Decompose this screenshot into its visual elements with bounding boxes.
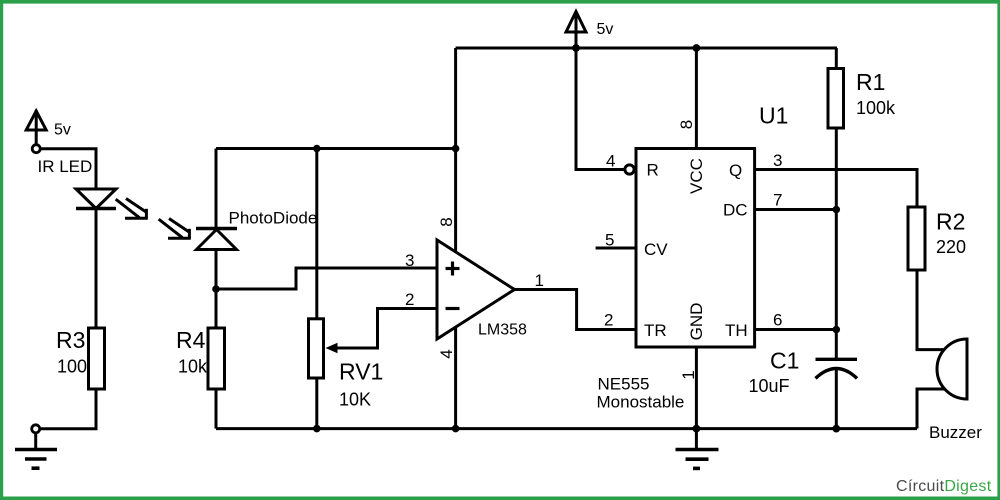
junction node RV1 bottom [313, 425, 321, 433]
power rail top (y=48) [456, 47, 837, 50]
svg-text:CírcuitDigest: CírcuitDigest [896, 478, 992, 495]
resistor R2 [908, 207, 925, 270]
svg-text:6: 6 [773, 311, 782, 330]
svg-text:CV: CV [644, 240, 668, 259]
555 GND pin 1 wire [695, 347, 698, 449]
555 VCC pin 8 wire [695, 48, 698, 149]
svg-text:TH: TH [725, 321, 748, 340]
svg-text:Q: Q [729, 161, 742, 180]
LED emission arrow 2 [159, 219, 191, 239]
wire R4 to bottom rail [215, 389, 218, 429]
resistor R1 [828, 69, 844, 129]
svg-text:7: 7 [773, 191, 782, 210]
op-amp + marker [446, 262, 460, 276]
svg-text:Buzzer: Buzzer [929, 423, 982, 442]
svg-text:4: 4 [606, 152, 615, 171]
wire 5v to reset pin [576, 48, 625, 170]
svg-text:RV1: RV1 [339, 359, 383, 385]
svg-text:100k: 100k [856, 98, 896, 118]
svg-text:LM358: LM358 [478, 322, 527, 339]
node ring at left ground [32, 425, 40, 433]
svg-text:2: 2 [405, 290, 414, 309]
svg-text:5v: 5v [54, 122, 71, 139]
wire RV1 to bottom rail [315, 378, 318, 429]
svg-text:PhotoDiode: PhotoDiode [229, 209, 318, 228]
buzzer LS1 [937, 339, 967, 399]
wire R1 to C1 (crosses Q wire, no dot) [835, 128, 838, 359]
svg-text:TR: TR [644, 321, 667, 340]
ground (555) [676, 450, 719, 469]
svg-text:10k: 10k [178, 357, 208, 377]
potentiometer RV1 body [309, 319, 324, 378]
wire top rail to R1 [835, 48, 838, 69]
photodiode D2 [196, 229, 237, 250]
svg-text:3: 3 [405, 251, 414, 270]
wire node to R4 [215, 289, 218, 328]
svg-text:10uF: 10uF [749, 376, 790, 396]
wire supply to LED [41, 149, 97, 189]
IR LED diode [76, 189, 116, 209]
555 CV stub pin 5 [596, 247, 636, 250]
wire rail to RV1 [315, 149, 318, 319]
junction node rail/pin8 [452, 145, 460, 153]
svg-text:R4: R4 [176, 327, 206, 353]
svg-text:C1: C1 [770, 348, 799, 374]
ground rail (bottom) [216, 427, 917, 430]
junction node GND/bottom rail [693, 425, 701, 433]
555 TH wire pin 6 [755, 328, 837, 331]
junction node RV1 top [313, 145, 321, 153]
op-amp pin 4 wire [454, 327, 457, 428]
RV1 wiper arrow [326, 309, 438, 354]
junction node pin4/bottom rail [452, 425, 460, 433]
op-amp output wire to TR [515, 290, 637, 330]
svg-text:R2: R2 [936, 209, 965, 235]
wire LED to R3 [95, 209, 98, 329]
svg-text:2: 2 [604, 311, 613, 330]
wire photodiode to node [215, 250, 218, 290]
svg-text:8: 8 [437, 217, 456, 226]
wire R3 to ground [41, 389, 97, 429]
svg-text:U1: U1 [759, 103, 788, 129]
wire C1 to bottom rail [835, 369, 838, 429]
svg-text:100: 100 [57, 357, 87, 377]
junction node TH/C1 [833, 326, 841, 334]
svg-text:3: 3 [773, 151, 782, 170]
svg-text:10K: 10K [339, 390, 371, 410]
svg-text:4: 4 [437, 349, 456, 358]
svg-text:8: 8 [677, 120, 696, 129]
svg-text:1: 1 [535, 271, 544, 290]
buzzer bottom wire [917, 389, 945, 429]
resistor R4 [208, 328, 225, 389]
power symbol 5v (left) [26, 110, 46, 145]
resistor R3 [89, 328, 105, 389]
junction node C1/bottom rail [832, 425, 840, 433]
ground (left) [15, 433, 57, 468]
svg-text:R1: R1 [856, 69, 885, 95]
op-amp U2 LM358 [437, 240, 515, 339]
svg-text:NE555: NE555 [598, 375, 650, 394]
junction node 5v/top rail [572, 44, 580, 52]
junction node photodiode/R4 [212, 285, 220, 293]
svg-text:5v: 5v [597, 21, 614, 38]
svg-text:220: 220 [936, 237, 966, 257]
svg-text:DC: DC [723, 201, 748, 220]
555 Q wire pin 3 [755, 170, 917, 208]
svg-text:GND: GND [687, 303, 706, 341]
LED emission arrow 1 [116, 199, 148, 219]
vcc rail (middle, y=148.5) [216, 147, 456, 150]
svg-text:5: 5 [605, 231, 614, 250]
reset inversion bubble [625, 165, 634, 174]
junction node DC/R1 [833, 206, 841, 214]
svg-text:1: 1 [679, 370, 698, 379]
svg-text:IR LED: IR LED [38, 157, 93, 176]
svg-text:Monostable: Monostable [597, 393, 685, 412]
junction node VCC/top rail [693, 44, 701, 52]
555 DC wire pin 7 [755, 208, 837, 211]
op-amp - marker [446, 307, 460, 310]
power symbol 5v (top) [566, 11, 586, 48]
svg-text:R3: R3 [56, 327, 85, 353]
wire rail to photodiode [215, 149, 218, 229]
wire R2 to buzzer [917, 270, 945, 350]
op-amp pin 8 wire [454, 48, 457, 252]
IC U1 NE555 body [636, 149, 755, 348]
capacitor C1 [816, 359, 858, 378]
svg-text:VCC: VCC [687, 158, 706, 194]
node ring at left supply [32, 145, 40, 153]
svg-text:R: R [647, 161, 659, 180]
wire node to op-amp + input [216, 268, 437, 289]
